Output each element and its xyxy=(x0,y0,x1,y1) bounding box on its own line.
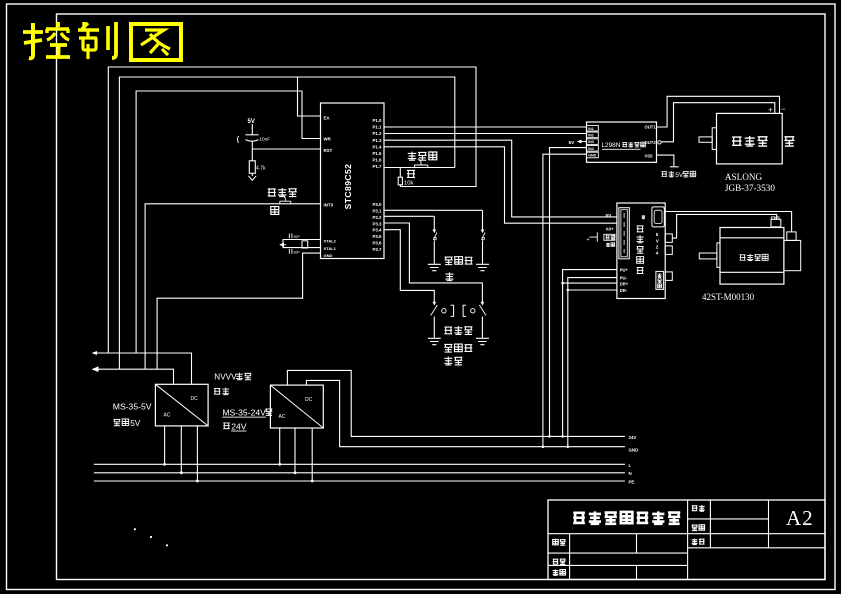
svg-text:+: + xyxy=(587,237,590,243)
svg-text:XTAL2: XTAL2 xyxy=(324,238,337,243)
wire 5V to cap xyxy=(251,124,253,135)
label 压24V xyxy=(223,423,230,429)
wire P3.3 to right grab switch xyxy=(384,223,482,303)
svg-text:P1.0: P1.0 xyxy=(372,118,382,123)
svg-text:P3.0: P3.0 xyxy=(372,202,382,207)
svg-text:L: L xyxy=(629,463,632,468)
svg-text:P3.5: P3.5 xyxy=(372,234,382,239)
wire 0V rail xyxy=(306,380,625,446)
wire P1.7 to start button xyxy=(384,167,455,169)
svg-text:EA: EA xyxy=(324,116,331,121)
svg-text:5V: 5V xyxy=(248,119,255,125)
pin IN2 xyxy=(587,132,599,138)
driver connector CN1 xyxy=(619,208,629,259)
label 件数 xyxy=(692,525,698,530)
svg-text:P3.2: P3.2 xyxy=(372,215,382,220)
grab switch SQ4 xyxy=(481,302,485,306)
svg-text:A2: A2 xyxy=(786,506,814,530)
svg-text:PE: PE xyxy=(629,479,635,484)
svg-text:IN4: IN4 xyxy=(588,147,594,151)
svg-text:VS5: VS5 xyxy=(645,153,654,158)
resistor R1 4.7k xyxy=(249,161,255,174)
svg-text:P1.4: P1.4 xyxy=(372,144,382,149)
pin GND xyxy=(587,152,599,158)
limit switch SQ2 xyxy=(482,210,484,231)
AC feed line 1 xyxy=(93,353,192,384)
wire PS1 pin2 xyxy=(180,426,182,473)
svg-text:42ST-M00130: 42ST-M00130 xyxy=(702,292,755,302)
wire PS2 pin3 xyxy=(311,428,313,481)
driver encoder box xyxy=(656,271,664,289)
svg-text:P1.5: P1.5 xyxy=(372,151,382,156)
svg-text:GND: GND xyxy=(324,253,333,258)
svg-text:GND: GND xyxy=(629,447,639,452)
svg-text:5V: 5V xyxy=(675,172,683,179)
wire bus L xyxy=(94,463,625,465)
wire PS2 pin2 xyxy=(294,428,296,473)
module U3 servo driver xyxy=(617,203,665,299)
wire INT0 to pause button xyxy=(145,204,320,369)
ground arrow (crystal) xyxy=(280,244,286,246)
svg-text:24V: 24V xyxy=(629,435,637,440)
motor shaft plate xyxy=(712,128,716,150)
wire P1.3 to driver xyxy=(384,140,617,217)
wire P3.1 to right limit switch xyxy=(384,209,483,211)
wire GND net xyxy=(157,253,320,369)
svg-text:NVVV: NVVV xyxy=(214,373,237,382)
label 暂停按键 xyxy=(268,189,276,196)
label 学号 xyxy=(553,569,559,575)
label 班级 xyxy=(553,559,559,564)
wire PS1 pin1 xyxy=(164,426,166,464)
wire OUT1 to motor - xyxy=(657,96,780,127)
svg-text:RST: RST xyxy=(324,148,333,153)
svg-text:L298N: L298N xyxy=(602,142,621,149)
wire loop rect2 xyxy=(119,77,454,369)
label 伺服电机 xyxy=(740,255,746,260)
wire bus PE xyxy=(94,480,625,482)
svg-text:IN3: IN3 xyxy=(588,140,594,144)
wire OUT2 to motor + xyxy=(662,103,775,142)
svg-text:IN1: IN1 xyxy=(588,127,594,131)
crystal Y1 xyxy=(302,241,308,248)
svg-text:DC: DC xyxy=(191,396,199,402)
pin IN4 xyxy=(587,146,599,152)
pin IN3 xyxy=(587,139,599,145)
label 制图 xyxy=(553,539,559,544)
label 输出5V电压 xyxy=(661,172,667,177)
servo encoder housing xyxy=(784,240,801,270)
wire PU+ to 24V xyxy=(563,270,617,437)
label 比例 xyxy=(692,506,698,511)
AC feed line 2 xyxy=(93,369,174,384)
svg-text:PU-: PU- xyxy=(620,276,628,281)
label 伺服驱动器 (vertical) xyxy=(637,226,644,232)
svg-text:AC: AC xyxy=(279,414,286,420)
resistor R2 10k xyxy=(399,168,401,178)
drawing title text 控制图 xyxy=(29,23,33,58)
wire resistor to ground xyxy=(251,173,253,176)
svg-text:DR-: DR- xyxy=(620,288,628,293)
DC motor M1 xyxy=(717,113,783,163)
servo top connector xyxy=(771,219,781,227)
servo shaft plate xyxy=(717,243,720,267)
capacitor C1 10uF xyxy=(246,134,259,136)
driver DB9 port xyxy=(652,207,664,227)
svg-text:PU+: PU+ xyxy=(620,268,629,273)
svg-text:10k: 10k xyxy=(404,181,413,187)
push button S2 (pause) xyxy=(280,195,291,204)
wire driver to encoder xyxy=(665,212,791,232)
wire P1.2 to IN2 xyxy=(384,133,587,135)
capacitor C3 30P xyxy=(289,249,292,254)
wire P3.4 to left grab switch xyxy=(384,230,434,303)
wire cap to RST junction xyxy=(251,141,253,161)
svg-text:+: + xyxy=(768,105,773,114)
svg-text:P1.7: P1.7 xyxy=(372,164,382,169)
svg-text:IN2: IN2 xyxy=(588,134,594,138)
svg-text:INT0: INT0 xyxy=(324,202,334,207)
svg-text:MS-35-5V: MS-35-5V xyxy=(113,401,152,411)
wire bus N xyxy=(94,472,625,474)
label 电气控制原理图 xyxy=(573,513,585,523)
wire EA to loop xyxy=(298,77,321,116)
label CN xyxy=(642,216,645,219)
wire driver to motor connector xyxy=(672,214,776,238)
wire PU- to 0V xyxy=(568,278,617,447)
svg-text:N: N xyxy=(629,471,632,476)
svg-text:XTAL1: XTAL1 xyxy=(324,246,337,251)
power module PS2 MS-35-24V xyxy=(270,385,323,428)
svg-text:P1.6: P1.6 xyxy=(372,158,382,163)
svg-text:30P: 30P xyxy=(293,235,300,239)
svg-text:P3.1: P3.1 xyxy=(372,209,382,214)
svg-text:ASLONG: ASLONG xyxy=(725,172,763,182)
pin tab right 2 xyxy=(665,246,672,255)
svg-text:4: 4 xyxy=(656,251,659,256)
pin IN1 xyxy=(587,125,599,131)
svg-text:P3.6: P3.6 xyxy=(372,241,382,246)
svg-text:JGB-37-3530: JGB-37-3530 xyxy=(725,183,775,193)
ground arrow (reset) xyxy=(248,176,256,181)
svg-text:P1.1: P1.1 xyxy=(372,125,382,130)
svg-text:GND: GND xyxy=(588,154,596,158)
label 抓取状态判断开关 xyxy=(444,327,452,334)
servo motor M2 xyxy=(720,228,784,285)
wire VS5 to output terminal xyxy=(657,155,674,166)
servo shaft xyxy=(699,253,717,259)
label 行程开关 xyxy=(445,257,453,265)
wire L298N GND to 0V rail xyxy=(543,154,587,447)
svg-text:2: 2 xyxy=(656,244,659,249)
svg-text:STC89C52: STC89C52 xyxy=(343,164,353,210)
svg-text:4.7k: 4.7k xyxy=(256,166,266,172)
svg-text:P3.3: P3.3 xyxy=(372,221,382,226)
wire 24V rail xyxy=(287,370,625,436)
title block frame xyxy=(548,500,825,580)
svg-text:P1.2: P1.2 xyxy=(372,131,382,136)
limit switch SQ1 xyxy=(433,216,435,231)
wire PS2 pin1 xyxy=(279,428,281,464)
label 电压5V xyxy=(113,419,120,425)
svg-text:5V: 5V xyxy=(606,213,613,219)
capacitor C2 30P xyxy=(289,234,292,239)
svg-text:DC: DC xyxy=(305,397,313,403)
svg-text:P1.3: P1.3 xyxy=(372,138,382,143)
node dots xyxy=(134,528,136,530)
svg-text:5V: 5V xyxy=(130,419,141,428)
label 启动按钮 xyxy=(408,152,416,161)
svg-text:P3.7: P3.7 xyxy=(372,247,382,252)
push button S1 (start) xyxy=(414,159,427,168)
svg-text:−: − xyxy=(781,104,786,113)
svg-text:30P: 30P xyxy=(293,250,300,254)
svg-text:10uF: 10uF xyxy=(259,136,270,142)
wire loop rect3 xyxy=(136,91,320,353)
motor shaft xyxy=(699,137,712,142)
wire loop rect1 (5V net) xyxy=(108,67,476,353)
pin tab right 1 xyxy=(665,234,672,243)
wire PS1 pin3 xyxy=(196,426,198,481)
wire DR- xyxy=(568,289,617,291)
power module PS1 MS-35-5V xyxy=(155,384,208,426)
svg-text:A0+: A0+ xyxy=(606,227,615,232)
wire P3.2 to left limit switch xyxy=(384,215,434,217)
svg-text:MS-35-24V: MS-35-24V xyxy=(222,408,266,418)
wire XTAL2 xyxy=(283,240,321,248)
svg-text:OUT2: OUT2 xyxy=(645,140,657,145)
wire P1.4 to driver xyxy=(384,147,617,223)
wire IN4 to 24V rail xyxy=(550,148,587,437)
MCU U1 STC89C52 xyxy=(321,103,385,259)
svg-text:OUT1: OUT1 xyxy=(645,125,657,130)
svg-text:24V: 24V xyxy=(231,422,247,432)
wire RST net xyxy=(252,148,320,150)
svg-text:AC: AC xyxy=(164,413,171,419)
grab switch SQ3 xyxy=(433,302,437,306)
pin tab right 3 xyxy=(665,272,672,281)
svg-text:DR+: DR+ xyxy=(620,282,629,287)
wire P1.1 to IN1 xyxy=(384,126,587,128)
wire DR+ xyxy=(563,282,617,284)
svg-text:5: 5 xyxy=(656,232,659,237)
module U2 L298N xyxy=(587,122,657,162)
label 重量 xyxy=(692,539,698,545)
label 直流电机 xyxy=(732,137,741,145)
svg-text:WR: WR xyxy=(324,137,332,142)
svg-text:P3.4: P3.4 xyxy=(372,228,382,233)
svg-text:5V: 5V xyxy=(569,140,576,146)
